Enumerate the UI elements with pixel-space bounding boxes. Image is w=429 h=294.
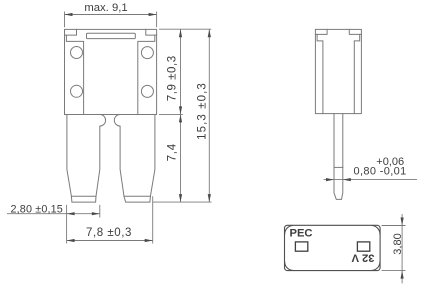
dim 3,80 line <box>401 214 403 283</box>
arrow 3,80 top <box>401 218 404 226</box>
bottom view outline <box>285 225 381 270</box>
svg-text:32 V: 32 V <box>351 252 375 264</box>
svg-text:0,80 -0,01: 0,80 -0,01 <box>354 166 407 178</box>
svg-text:7,9 ±0,3: 7,9 ±0,3 <box>167 55 179 101</box>
arrow 2,80 right <box>92 212 100 215</box>
side view body outline <box>315 29 361 113</box>
rivet circle lower-right <box>141 85 153 97</box>
dim 0,80 line <box>324 179 418 181</box>
arrow 15,3 bottom <box>208 194 211 202</box>
svg-text:15,3 ±0,3: 15,3 ±0,3 <box>196 82 208 140</box>
top-left inner step and left inner wall <box>66 35 83 114</box>
arrow max9,1 right <box>149 13 157 16</box>
arrow 15,3 top <box>208 29 211 37</box>
arrow 7,9 top <box>179 29 182 37</box>
top slot window <box>87 33 136 38</box>
bottom view corner arc bottom-right <box>372 262 380 270</box>
arrow 7,8 left <box>67 239 75 242</box>
arrow 7,4 top <box>179 114 182 122</box>
svg-text:3,80: 3,80 <box>392 233 404 254</box>
arrow 0,80 right <box>343 178 351 181</box>
top-right cap notch <box>146 29 157 35</box>
arrow 0,80 left <box>326 178 334 181</box>
dim 7,9 and 7,4 line <box>180 29 182 202</box>
right blade chamfer line <box>124 195 150 197</box>
right blade terminal <box>114 115 155 203</box>
top-right inner step and right inner wall <box>138 35 155 114</box>
arrow 2,80 left <box>67 212 75 215</box>
extension line body bottom right <box>159 113 183 115</box>
arrow 7,8 right <box>145 239 153 242</box>
side view blade <box>334 114 343 200</box>
side view top-left cap notch <box>315 29 327 34</box>
dim 2,80 extension lines <box>67 205 100 244</box>
dim 15,3 line <box>208 29 210 202</box>
side view blade chamfer line <box>334 166 343 168</box>
svg-text:PEC: PEC <box>290 228 313 240</box>
svg-text:7,8 ±0,3: 7,8 ±0,3 <box>86 227 132 239</box>
svg-text:2,80 ±0,15: 2,80 ±0,15 <box>11 203 63 215</box>
rivet circle lower-left <box>71 85 83 97</box>
bottom view corner arc top-left <box>285 226 293 234</box>
side view top-right inner step and wall <box>354 34 359 113</box>
dim 3,80 extension lines <box>382 226 406 271</box>
left blade terminal <box>67 115 106 203</box>
extension line blade bottom right <box>153 201 212 203</box>
svg-text:max. 9,1: max. 9,1 <box>84 2 127 14</box>
rivet circle upper-right <box>141 47 153 59</box>
dim 2,80 line <box>7 213 100 215</box>
left blade chamfer line <box>71 195 96 197</box>
emboss square right <box>357 242 369 251</box>
rivet circle upper-left <box>71 47 83 59</box>
dim 7,8 line <box>67 240 153 242</box>
dim max 9,1 extension lines <box>65 12 157 28</box>
top-left cap notch <box>65 29 77 35</box>
fuse front view body outline <box>65 29 157 114</box>
bottom view corner arc top-right <box>372 226 380 234</box>
arrow 7,9 bottom <box>179 106 182 114</box>
dim 7,8 extension line right <box>152 196 154 243</box>
arrow 7,4 bottom <box>179 194 182 202</box>
svg-text:7,4: 7,4 <box>167 143 179 161</box>
arrow max9,1 left <box>65 13 73 16</box>
side view top-right cap notch <box>349 29 361 34</box>
extension line body top right <box>159 28 211 30</box>
bottom view corner arc bottom-left <box>285 262 293 270</box>
emboss square left <box>295 242 307 251</box>
arrow 3,80 bottom <box>401 271 404 279</box>
side view top-left inner step and wall <box>317 34 323 113</box>
dim max 9,1 line <box>65 14 157 16</box>
marking squares <box>295 242 369 251</box>
